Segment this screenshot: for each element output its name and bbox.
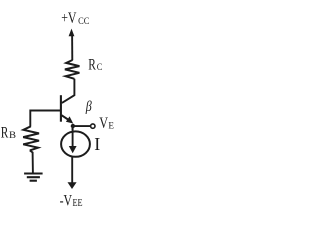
svg-text:VE: VE — [99, 113, 114, 132]
svg-text:-VEE: -VEE — [60, 190, 83, 209]
svg-text:β: β — [85, 98, 92, 115]
wire junction to current source — [72, 126, 74, 130]
terminal VE open circle — [91, 124, 95, 128]
wire RB to ground — [30, 150, 33, 172]
current source I — [61, 128, 90, 157]
wire to VEE with arrow — [68, 156, 77, 189]
resistor RC — [65, 60, 80, 79]
svg-text:I: I — [94, 134, 100, 154]
svg-text:RC: RC — [88, 55, 103, 74]
svg-text:+VCC: +VCC — [61, 8, 89, 27]
svg-text:RB: RB — [1, 122, 17, 141]
resistor RB — [23, 126, 39, 150]
wire emitter to VE terminal — [73, 125, 90, 127]
wire collector — [62, 79, 75, 103]
node VE junction dot — [71, 124, 75, 128]
transistor Q1 — [61, 95, 73, 123]
wire VCC supply arrow — [69, 29, 75, 61]
ground — [24, 174, 42, 181]
wire base — [30, 111, 60, 127]
